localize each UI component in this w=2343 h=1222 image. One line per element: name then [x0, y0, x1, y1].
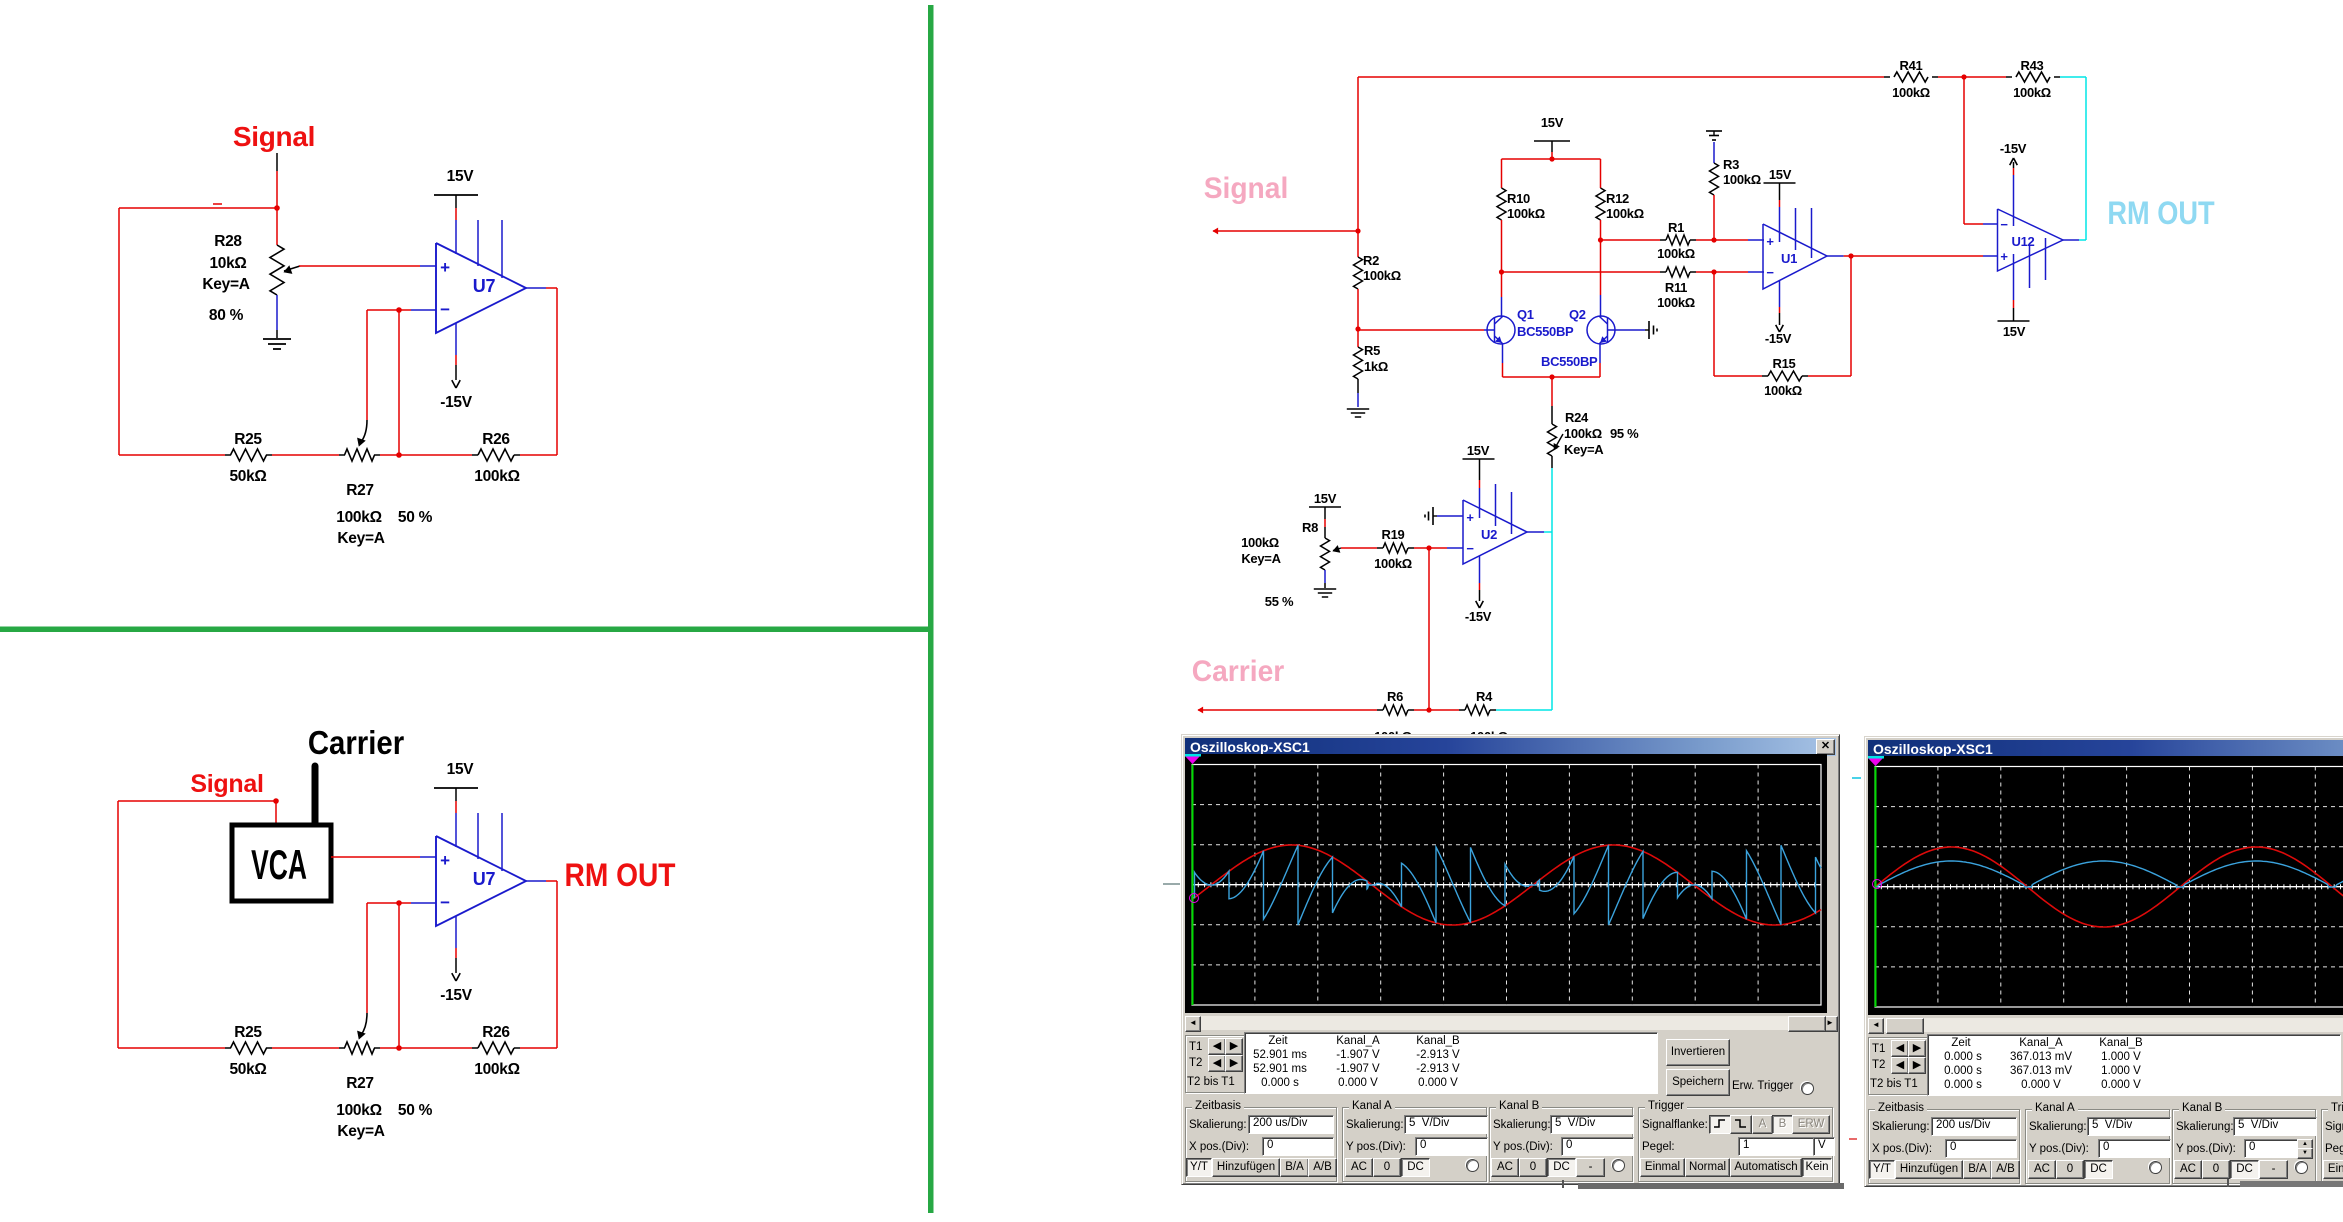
wire U2 output to carrier net	[1527, 531, 1544, 533]
svg-text:U1: U1	[1781, 251, 1797, 266]
wire R27 wiper up to inverting input (bottom)	[366, 903, 368, 1013]
svg-text:50 %: 50 %	[398, 1102, 433, 1119]
wire 15V rail horizontal	[1502, 158, 1601, 160]
svg-text:100kΩ: 100kΩ	[474, 468, 519, 485]
resistor R5 1k	[1357, 329, 1359, 347]
potentiometer R28 10k (vertical)	[276, 208, 278, 245]
svg-text:15V: 15V	[1769, 167, 1792, 182]
svg-text:80 %: 80 %	[209, 307, 244, 324]
svg-text:100kΩ: 100kΩ	[474, 1061, 519, 1078]
node junction above VCA	[273, 798, 279, 804]
svg-text:-15V: -15V	[2000, 141, 2027, 156]
wire main left vertical to top row	[1357, 77, 1359, 257]
svg-text:R26: R26	[482, 1024, 510, 1041]
svg-text:R3: R3	[1723, 157, 1739, 172]
wire output vertical down (bottom circuit)	[556, 881, 558, 1048]
wire node to U2 - input	[1429, 547, 1447, 549]
svg-text:R26: R26	[482, 431, 510, 448]
svg-text:15V: 15V	[447, 168, 475, 185]
svg-text:Signal: Signal	[233, 121, 315, 152]
svg-text:R5: R5	[1364, 343, 1380, 358]
svg-text:U7: U7	[473, 869, 496, 889]
node inverting input (bottom)	[396, 900, 402, 906]
oscilloscope window XSC1 right (Oszilloskop-XSC1)	[1864, 736, 2343, 1187]
svg-text:55 %: 55 %	[1265, 594, 1294, 609]
svg-text:100kΩ: 100kΩ	[2013, 85, 2051, 100]
node 15V rail split	[1549, 156, 1554, 161]
op-amp U7 negative supply pin -15V	[455, 323, 457, 355]
svg-text:100kΩ: 100kΩ	[1657, 246, 1695, 261]
svg-text:−: −	[1766, 265, 1774, 280]
wire feedback left vertical	[118, 208, 120, 455]
wire Signal vertical (red) into node	[276, 171, 278, 208]
ground below R8	[1314, 588, 1336, 590]
wire node to Q1 base	[1358, 329, 1484, 331]
op-amp U2 negative supply -15V	[1479, 556, 1481, 583]
svg-text:15V: 15V	[1541, 115, 1564, 130]
wire to U1 - input	[1714, 271, 1748, 273]
svg-text:U2: U2	[1481, 527, 1497, 542]
wire U1 output to U12 + input	[1851, 255, 1983, 257]
resistor R4 100k	[1459, 709, 1465, 711]
svg-text:50 %: 50 %	[398, 509, 433, 526]
svg-text:100kΩ: 100kΩ	[336, 509, 381, 526]
op-amp U2	[1463, 500, 1527, 564]
op-amp U2 top pins	[1495, 484, 1497, 526]
svg-text:100kΩ: 100kΩ	[1564, 426, 1602, 441]
resistor R10 100k	[1501, 159, 1503, 188]
svg-text:15V: 15V	[2003, 324, 2026, 339]
wire inverting input row (bottom)	[367, 902, 411, 904]
terminal arrow Signal input	[1213, 228, 1218, 234]
node R41/R43 junction	[1961, 74, 1966, 79]
stray red dash left of right oscilloscope	[1849, 1138, 1857, 1140]
wire R41 to node	[1938, 76, 1964, 78]
svg-text:R1: R1	[1668, 220, 1684, 235]
node R1/R3/U1+ junction	[1711, 237, 1716, 242]
wire R10 node to Q1 collector	[1501, 272, 1503, 297]
svg-text:1kΩ: 1kΩ	[1364, 359, 1388, 374]
wire output right vertical down to feedback row	[556, 288, 558, 455]
wire thick carrier lead into VCA	[312, 766, 319, 823]
wire R43 to RM OUT net (cyan)	[2060, 76, 2086, 78]
wire between R25 and R27 (bottom)	[272, 1047, 339, 1049]
stray cyan dash left of right oscilloscope	[1852, 777, 1861, 779]
wire signal vertical into VCA	[275, 799, 277, 823]
svg-text:Key=A: Key=A	[337, 1123, 384, 1140]
svg-text:15V: 15V	[447, 761, 475, 778]
VCA block	[232, 825, 331, 901]
node R11/R15/U1- junction	[1711, 269, 1716, 274]
svg-text:+: +	[1466, 510, 1474, 525]
resistor R41 100k	[1884, 76, 1890, 78]
svg-text:100kΩ: 100kΩ	[1606, 206, 1644, 221]
node on inverting input	[396, 307, 402, 313]
svg-text:+: +	[1766, 234, 1774, 249]
wire R27 wiper up to inverting input	[366, 310, 368, 420]
op-amp U1 negative supply -15V	[1779, 281, 1781, 307]
divider: vertical green separator line	[928, 5, 934, 1213]
resistor R2 100k	[1354, 257, 1363, 289]
svg-text:R28: R28	[214, 233, 242, 250]
op-amp U12 bottom pins	[2029, 246, 2031, 288]
ground at Q2 base (rotated)	[1645, 329, 1649, 331]
cursor T1/T2 panel	[1868, 1037, 1928, 1095]
svg-text:U7: U7	[473, 276, 496, 296]
wire Q1 emitter down	[1502, 344, 1504, 363]
svg-text:VCA: VCA	[251, 842, 307, 889]
op-amp U7 top pins (bottom circuit)	[477, 813, 479, 859]
svg-text:R27: R27	[346, 1075, 374, 1092]
wire Q2 emitter down	[1599, 344, 1601, 363]
scope screen with graticule and waveforms	[1868, 756, 2343, 1015]
horizontal scrollbar	[1868, 1018, 2343, 1032]
cursor T1/T2 panel	[1185, 1035, 1245, 1093]
wire bottom feedback row left (bottom circuit)	[118, 1047, 225, 1049]
svg-text:−: −	[2000, 217, 2008, 232]
Kanal B group	[1489, 1107, 1633, 1182]
wire node to R43	[1964, 76, 2006, 78]
svg-text:-15V: -15V	[440, 987, 473, 1004]
svg-text:10kΩ: 10kΩ	[209, 255, 246, 272]
svg-text:BC550BP: BC550BP	[1541, 354, 1598, 369]
potentiometer R24 100k	[1551, 377, 1553, 406]
ground at U2 + input (rotated)	[1433, 515, 1437, 517]
wire U12 output to RM OUT net	[2063, 239, 2079, 241]
svg-text:100kΩ: 100kΩ	[1241, 535, 1279, 550]
wire top horizontal to feedback loop (bottom circuit)	[118, 800, 276, 802]
wire R11 row from R10 node	[1502, 271, 1661, 273]
horizontal scrollbar	[1185, 1016, 1838, 1030]
wire R12 node to R1	[1601, 239, 1661, 241]
wire R41/R43 node down to U12 - input	[1963, 77, 1965, 224]
resistor R26 100k	[472, 454, 478, 456]
Erw. Trigger radio	[1732, 1080, 1793, 1092]
wire feedback from U1 output down to R15	[1850, 256, 1852, 376]
potentiometer R27 100k (horizontal)	[339, 454, 345, 456]
Trigger group	[2321, 1109, 2343, 1184]
readout box	[1927, 1034, 2341, 1096]
resistor R15 100k	[1802, 375, 1808, 377]
Invertieren button	[1666, 1039, 1730, 1066]
wire between R27 and R26 (bottom)	[380, 1047, 472, 1049]
svg-text:100kΩ: 100kΩ	[1507, 206, 1545, 221]
svg-text:-15V: -15V	[440, 394, 473, 411]
node R12/R1 junction	[1598, 237, 1603, 242]
svg-text:100kΩ: 100kΩ	[1374, 556, 1412, 571]
svg-text:100kΩ: 100kΩ	[1657, 295, 1695, 310]
resistor R3 100k	[1713, 142, 1715, 163]
resistor R11 100k	[1660, 271, 1666, 273]
svg-text:R2: R2	[1363, 253, 1379, 268]
svg-text:Key=A: Key=A	[1241, 551, 1281, 566]
op-amp U7 (bottom-left circuit)	[436, 836, 526, 926]
wire top feedback row to R41	[1358, 76, 1884, 78]
op-amp U1 top pins	[1795, 208, 1797, 250]
op-amp U12 positive supply 15V (bottom)	[2013, 254, 2015, 300]
svg-text:+: +	[440, 851, 450, 870]
wire U1 output net	[1827, 255, 1844, 257]
svg-text:R27: R27	[346, 482, 374, 499]
node emitters to R24	[1549, 374, 1554, 379]
wire vertical tie node to bottom row	[398, 310, 400, 455]
Trigger group	[1638, 1107, 1833, 1182]
Kanal B group	[2172, 1109, 2316, 1184]
svg-text:U12: U12	[2012, 234, 2035, 249]
title bar	[1868, 740, 2343, 758]
wire emitter join row	[1503, 376, 1601, 378]
svg-text:50kΩ: 50kΩ	[229, 1061, 266, 1078]
wire node down to R6/R4 row	[1428, 548, 1430, 710]
resistor R6 100k	[1377, 709, 1383, 711]
svg-text:R11: R11	[1665, 280, 1687, 295]
node U1 output	[1848, 253, 1853, 258]
wire node to bottom row (bottom circuit)	[398, 903, 400, 1048]
wire R26 to output vertical (bottom)	[520, 1047, 557, 1049]
svg-text:Q2: Q2	[1569, 307, 1586, 322]
wire node to R4	[1429, 709, 1459, 711]
svg-text:15V: 15V	[1314, 491, 1337, 506]
svg-text:R6: R6	[1387, 689, 1403, 704]
svg-text:100kΩ: 100kΩ	[1764, 383, 1802, 398]
svg-text:RM OUT: RM OUT	[564, 858, 676, 893]
ground below R5	[1347, 408, 1369, 410]
wire feedback left vertical (bottom circuit)	[117, 801, 119, 1048]
ground below R28	[263, 338, 291, 340]
resistor R25 50k (bottom circuit)	[225, 1047, 231, 1049]
ground above R3	[1713, 131, 1715, 135]
svg-text:50kΩ: 50kΩ	[229, 468, 266, 485]
wire VCA output to op-amp + input	[331, 856, 420, 858]
resistor R26 100k (bottom circuit)	[472, 1047, 478, 1049]
wire Q2 base to ground	[1614, 329, 1645, 331]
svg-text:BC550BP: BC550BP	[1517, 324, 1574, 339]
wire ground to U2 + input	[1437, 515, 1463, 517]
node R6/R4 junction	[1426, 707, 1431, 712]
potentiometer R27 100k (bottom circuit)	[339, 1047, 345, 1049]
svg-text:-15V: -15V	[1465, 609, 1492, 624]
svg-text:Signal: Signal	[190, 770, 263, 798]
wire R12 node down to Q2 collector	[1600, 240, 1602, 295]
wire R8 wiper to R19	[1333, 546, 1340, 553]
svg-text:+: +	[2000, 249, 2008, 264]
svg-text:Key=A: Key=A	[202, 276, 249, 293]
wire between R27 and R26	[380, 454, 472, 456]
wire R26 to output vertical	[520, 454, 557, 456]
svg-text:R24: R24	[1565, 410, 1589, 425]
svg-text:R25: R25	[234, 1024, 262, 1041]
divider: horizontal green separator line	[0, 627, 934, 633]
svg-text:R41: R41	[1900, 58, 1923, 73]
node R19/R6/U2- junction	[1426, 545, 1431, 550]
op-amp U7 (top-left circuit)	[436, 243, 526, 333]
svg-text:100kΩ: 100kΩ	[336, 1102, 381, 1119]
svg-text:−: −	[440, 300, 450, 319]
resistor R25 50k	[225, 454, 231, 456]
wire bottom feedback row left segment	[119, 454, 225, 456]
op-amp U12 negative supply -15V (top)	[2013, 175, 2015, 226]
resistor R1 100k	[1660, 239, 1666, 241]
wire Signal input horizontal	[1213, 230, 1358, 232]
wire R15 to U1 - node	[1714, 375, 1762, 377]
background window fragment below left oscilloscope	[1578, 1183, 1844, 1189]
svg-text:R19: R19	[1382, 527, 1405, 542]
svg-text:Carrier: Carrier	[1192, 655, 1284, 688]
op-amp U1	[1763, 224, 1827, 289]
wire to U1 + input	[1714, 239, 1748, 241]
wire R24 to carrier net (cyan)	[1551, 468, 1553, 710]
svg-text:R4: R4	[1476, 689, 1493, 704]
svg-text:Key=A: Key=A	[1564, 442, 1604, 457]
background window fragment bottom right corner	[2240, 1181, 2343, 1187]
wire R4 to carrier net corner (cyan)	[1496, 709, 1552, 711]
node on bottom row	[396, 452, 402, 458]
node bottom row (bottom circuit)	[396, 1045, 402, 1051]
svg-text:15V: 15V	[1467, 443, 1490, 458]
node R2/R5/base junction	[1355, 326, 1360, 331]
svg-text:R10: R10	[1507, 191, 1530, 206]
node junction at R28 top	[274, 205, 280, 211]
svg-text:RM OUT: RM OUT	[2107, 196, 2214, 232]
svg-text:R12: R12	[1606, 191, 1629, 206]
op-amp U7 negative supply -15V (bottom)	[455, 916, 457, 948]
wire inverting input row	[367, 309, 411, 311]
readout box	[1244, 1032, 1658, 1094]
wire black stub below Signal label	[276, 153, 278, 171]
title bar	[1185, 738, 1836, 756]
svg-text:R15: R15	[1773, 356, 1796, 371]
Zeitbasis group	[1868, 1109, 2020, 1184]
svg-text:−: −	[440, 893, 450, 912]
svg-text:100kΩ: 100kΩ	[1363, 268, 1401, 283]
svg-text:R43: R43	[2021, 58, 2044, 73]
op-amp U7 top pins	[477, 220, 479, 266]
wire Carrier input to R6	[1198, 709, 1377, 711]
svg-text:−: −	[1466, 541, 1474, 556]
Speichern button	[1666, 1069, 1730, 1096]
oscilloscope window XSC1 left (Oszilloskop-XSC1)	[1181, 734, 1840, 1185]
wire stray red dash	[213, 203, 222, 205]
Kanal A group	[2025, 1109, 2170, 1184]
scope screen with graticule and waveforms	[1185, 754, 1827, 1013]
svg-text:Carrier: Carrier	[308, 724, 404, 761]
wire R28 wiper to op-amp + input	[299, 265, 420, 267]
transistor Q1 BC550BP	[1487, 316, 1515, 344]
svg-text:+: +	[440, 258, 450, 277]
wire top horizontal from feedback loop to R28 node	[119, 207, 277, 209]
node Signal/R2 junction	[1355, 228, 1360, 233]
svg-text:Q1: Q1	[1517, 307, 1534, 322]
wire between R25 and R27	[272, 454, 339, 456]
svg-text:-15V: -15V	[1765, 331, 1792, 346]
axis tick outside left oscilloscope	[1163, 883, 1180, 885]
op-amp U12 (flipped)	[1998, 209, 2064, 271]
svg-text:Signal: Signal	[1204, 172, 1289, 205]
resistor R19 100k	[1377, 547, 1383, 549]
Kanal A group	[1342, 1107, 1487, 1182]
svg-text:R8: R8	[1302, 520, 1318, 535]
svg-text:100kΩ: 100kΩ	[1723, 172, 1761, 187]
transistor Q2 BC550BP (mirrored)	[1587, 316, 1615, 344]
wire R28 bottom to ground	[276, 295, 278, 330]
terminal arrow Carrier input	[1198, 707, 1203, 713]
node R10/R11 junction	[1499, 269, 1504, 274]
svg-text:R25: R25	[234, 431, 262, 448]
wire U7 output	[526, 287, 546, 289]
wire U7 output (bottom)	[526, 880, 546, 882]
resistor R43 100k	[2006, 76, 2012, 78]
svg-text:Key=A: Key=A	[337, 530, 384, 547]
svg-text:95 %: 95 %	[1610, 426, 1639, 441]
Zeitbasis group	[1185, 1107, 1337, 1182]
svg-text:100kΩ: 100kΩ	[1892, 85, 1930, 100]
resistor R12 100k	[1600, 159, 1602, 188]
